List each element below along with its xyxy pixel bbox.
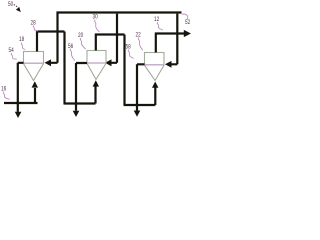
leader arrow for 50 — [14, 5, 18, 8]
column 20 cone — [87, 63, 106, 79]
leader for 12 — [157, 22, 163, 30]
column 18 cone — [24, 64, 44, 81]
svg-text:20: 20 — [78, 33, 84, 39]
svg-text:50: 50 — [8, 2, 14, 8]
top feed header line 52 — [57, 11, 182, 13]
gas line into column 22 from overhead 30 — [124, 87, 156, 105]
svg-text:30: 30 — [93, 15, 99, 21]
column 18 cone bottom line — [24, 62, 44, 64]
product overhead line 12 from column 22 — [155, 34, 184, 53]
overhead line 30 from column 20 — [95, 35, 125, 106]
feed arrowhead into column 18 — [45, 59, 52, 66]
svg-text:12: 12 — [154, 17, 160, 23]
leader for 52 — [182, 14, 188, 20]
leader for 18 — [21, 43, 25, 50]
column 22 cone bottom line — [145, 64, 165, 66]
leader for 58 — [128, 50, 133, 59]
gas up arrowhead into column 18 cone — [32, 81, 38, 87]
gas up arrowhead into column 22 cone — [152, 82, 158, 88]
feed drop line to column 20 — [111, 14, 117, 63]
recycle leg 56 from column 20 with discharge arrow — [76, 63, 87, 111]
column 20 cone bottom line — [87, 62, 106, 64]
gas line into column 20 from overhead 28 — [64, 86, 96, 104]
feed arrowhead into column 20 — [105, 59, 112, 66]
column 22 vessel box — [145, 53, 165, 65]
svg-text:16: 16 — [1, 87, 7, 93]
leader for 28 — [33, 26, 38, 31]
recycle leg 58 from column 22 with discharge arrow — [137, 64, 145, 110]
feed arrowhead into column 22 — [165, 61, 172, 68]
feed drop line to column 22 — [171, 14, 177, 65]
gas up arrowhead into column 20 cone — [93, 80, 99, 86]
svg-text:52: 52 — [185, 20, 191, 26]
discharge arrowhead below column 18 leg — [15, 112, 22, 118]
leader for 30 — [95, 20, 100, 32]
discharge arrowhead below column 22 leg — [134, 111, 141, 117]
gas feed line 16 — [4, 88, 38, 103]
product arrowhead pointing right — [184, 30, 191, 37]
leader for 16 — [3, 92, 9, 100]
svg-text:18: 18 — [19, 37, 25, 43]
svg-text:56: 56 — [68, 44, 74, 50]
overhead line 28 from column 18 — [36, 32, 65, 104]
column 22 cone — [145, 65, 165, 80]
leader for 20 — [80, 38, 85, 49]
column 18 vessel box — [24, 52, 44, 64]
leader for 54 — [11, 53, 16, 59]
discharge arrowhead below column 20 leg — [73, 111, 80, 117]
leader for 22 — [138, 38, 143, 51]
recycle leg 54 from column 18 — [18, 63, 24, 112]
leader for 56 — [70, 49, 74, 61]
feed drop line to column 18 — [51, 12, 58, 63]
column 20 vessel box — [87, 51, 106, 64]
